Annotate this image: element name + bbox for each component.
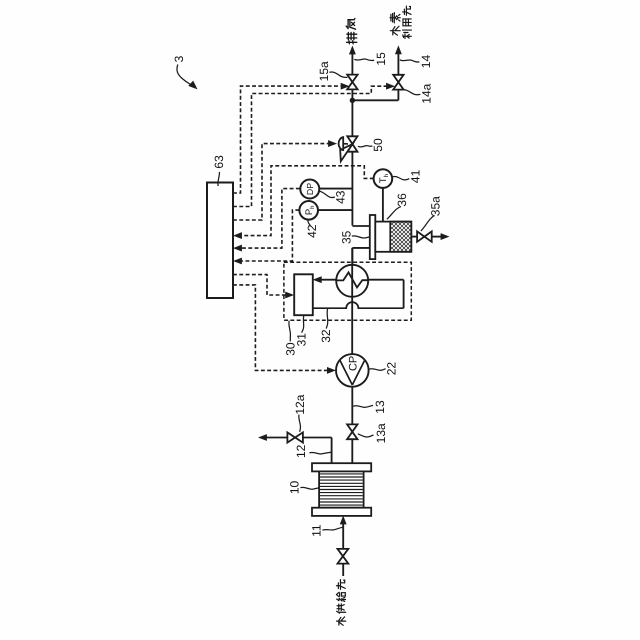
svg-text:36: 36 — [395, 193, 409, 207]
svg-text:12a: 12a — [293, 394, 307, 414]
svg-text:12: 12 — [294, 444, 308, 458]
svg-text:50: 50 — [371, 138, 385, 152]
svg-text:13a: 13a — [374, 423, 388, 443]
svg-text:22: 22 — [384, 362, 398, 376]
svg-text:10: 10 — [288, 481, 302, 495]
svg-text:32: 32 — [319, 329, 333, 343]
svg-text:42: 42 — [305, 224, 319, 238]
svg-text:35: 35 — [340, 230, 354, 244]
svg-text:31: 31 — [294, 333, 308, 347]
svg-text:CP: CP — [347, 356, 359, 371]
svg-text:14: 14 — [419, 55, 433, 69]
svg-text:63: 63 — [212, 155, 226, 169]
svg-text:3: 3 — [172, 55, 186, 62]
svg-text:15a: 15a — [317, 61, 331, 81]
svg-text:15: 15 — [374, 52, 388, 66]
svg-text:41: 41 — [408, 169, 422, 183]
svg-text:DP: DP — [305, 183, 315, 195]
svg-text:13: 13 — [373, 400, 387, 414]
svg-text:14a: 14a — [420, 83, 434, 103]
svg-text:35a: 35a — [428, 196, 442, 216]
svg-text:11: 11 — [309, 524, 323, 537]
svg-text:43: 43 — [334, 190, 348, 204]
